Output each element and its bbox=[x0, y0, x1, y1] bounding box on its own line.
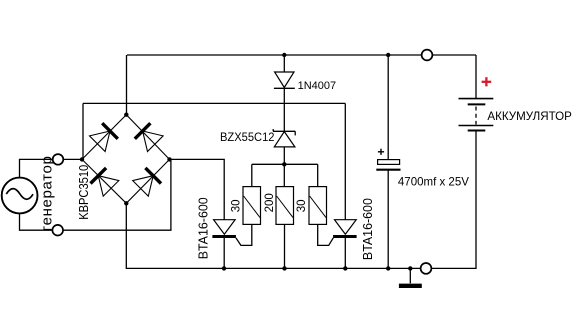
svg-text:1N4007: 1N4007 bbox=[298, 80, 337, 92]
junction bottom rail / left triac bbox=[222, 266, 226, 270]
bridge diode D4 (lower-right) bbox=[133, 168, 161, 196]
wire top rail to bridge top vertex bbox=[126, 55, 128, 115]
junction zener / resistor bus bbox=[282, 162, 286, 166]
wire 1N4007 anode bbox=[283, 55, 285, 72]
node bridge left vertex bbox=[80, 157, 84, 161]
bridge diode D1 (upper-left) bbox=[90, 123, 118, 151]
svg-text:30: 30 bbox=[296, 200, 308, 213]
node bridge top vertex bbox=[124, 113, 128, 117]
wire ground stub bbox=[409, 268, 411, 283]
node bridge right vertex bbox=[167, 157, 171, 161]
wire R2 bottom to bottom rail bbox=[284, 224, 286, 268]
svg-text:BZX55C12: BZX55C12 bbox=[220, 130, 275, 144]
wire drop to R1 bbox=[251, 164, 253, 186]
wire AC line from left vertex to right triac bbox=[83, 102, 345, 104]
junction top rail / diode branch bbox=[282, 53, 286, 57]
wire right triac anode bbox=[344, 103, 346, 219]
svg-text:BTA16-600: BTA16-600 bbox=[361, 198, 375, 260]
junction bottom rail / R2 bbox=[282, 266, 286, 270]
bridge rectifier KBPC3510 arms bbox=[82, 115, 170, 204]
diode 1N4007 bbox=[274, 72, 295, 88]
wire bottom rail bbox=[126, 131, 476, 269]
wire drop to R2 bbox=[283, 164, 285, 186]
node bridge bottom vertex bbox=[124, 201, 128, 205]
wire capacitor top lead bbox=[387, 55, 389, 160]
wire 1N4007 cathode to zener bbox=[283, 88, 285, 131]
svg-text:KBPC3510: KBPC3510 bbox=[76, 165, 91, 220]
resistor R2 200 bbox=[276, 187, 294, 225]
wire capacitor bottom lead bbox=[387, 170, 389, 269]
wire zener anode down bbox=[283, 147, 285, 164]
wire right vertex to left triac anode bbox=[170, 159, 225, 219]
battery GB1 bbox=[459, 99, 494, 131]
wire generator top lead bbox=[20, 159, 83, 178]
junction bottom rail / ground bbox=[408, 266, 412, 270]
svg-text:BTA16-600: BTA16-600 bbox=[197, 197, 211, 259]
zener diode BZX55C12 bbox=[273, 129, 295, 147]
terminal bottom-left bbox=[52, 225, 63, 236]
wire drop to R3 bbox=[317, 164, 319, 186]
junction bottom rail / capacitor bbox=[386, 266, 390, 270]
wire generator bottom lead bbox=[20, 159, 171, 230]
svg-text:АККУМУЛЯТОР: АККУМУЛЯТОР bbox=[487, 109, 572, 123]
wire R3 bottom to right triac gate bbox=[318, 224, 334, 245]
battery plus sign (red) bbox=[482, 77, 492, 86]
bridge diode D3 (lower-left) bbox=[91, 168, 119, 196]
terminal top-right bbox=[422, 50, 433, 61]
svg-text:200: 200 bbox=[264, 193, 276, 212]
ground bbox=[399, 284, 422, 288]
wire left triac cathode to bottom rail bbox=[223, 238, 225, 269]
wire R1 bottom to left triac gate bbox=[236, 224, 252, 245]
svg-text:4700mf x 25V: 4700mf x 25V bbox=[398, 175, 469, 189]
capacitor C1 bbox=[376, 149, 400, 170]
svg-text:30: 30 bbox=[231, 200, 243, 213]
bridge diode D2 (upper-right) bbox=[135, 123, 163, 151]
terminal bottom-right bbox=[421, 263, 432, 274]
wire battery positive lead bbox=[475, 55, 477, 99]
terminal top-left bbox=[53, 154, 64, 165]
thyristor VS2 BTA16-600 (right) bbox=[333, 220, 357, 237]
wire left vertex up bbox=[82, 103, 84, 159]
svg-text:генератор: генератор bbox=[39, 156, 56, 231]
thyristor VS1 BTA16-600 (left) bbox=[212, 220, 236, 237]
generator G1 bbox=[2, 178, 38, 214]
junction bottom rail / right triac bbox=[343, 266, 347, 270]
junction top rail / capacitor bbox=[386, 53, 390, 57]
wire resistor top bus bbox=[252, 163, 318, 165]
resistor R1 30 bbox=[243, 187, 261, 225]
resistor R3 30 bbox=[309, 187, 327, 225]
wire top rail bbox=[127, 54, 476, 56]
wire right triac cathode to bottom rail bbox=[344, 238, 346, 269]
